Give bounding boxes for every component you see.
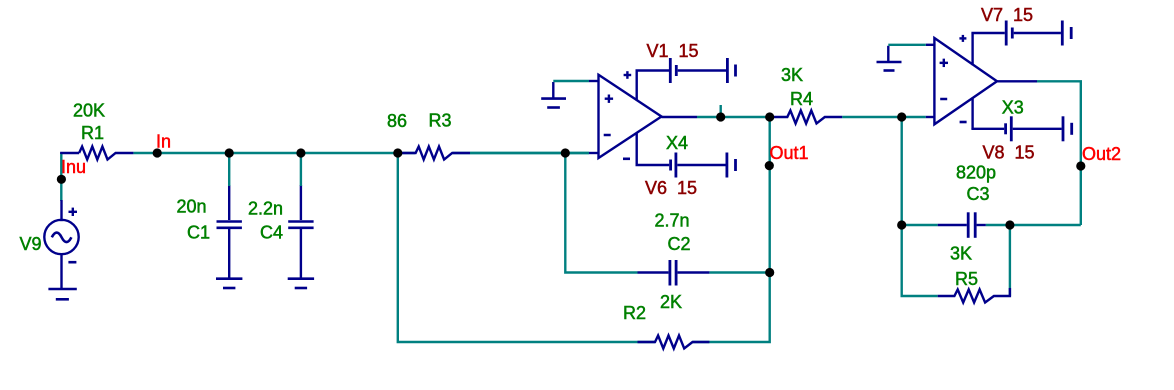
svg-text:R1: R1 — [81, 123, 104, 143]
label X4 plus supply — [624, 71, 632, 79]
svg-text:C1: C1 — [187, 222, 210, 242]
svg-text:2K: 2K — [660, 292, 682, 312]
svg-text:3K: 3K — [781, 65, 803, 85]
wire Out1 vertical — [693, 117, 770, 342]
resistor R2 — [638, 336, 710, 349]
wire R3 out to opamp — [470, 152, 589, 154]
node C3 left junction — [897, 220, 906, 229]
svg-text:X3: X3 — [1002, 97, 1024, 117]
resistor R4 — [772, 111, 842, 124]
node opamp2 inverting junction — [897, 112, 906, 121]
svg-text:X4: X4 — [666, 133, 688, 153]
ground under C1 — [216, 279, 242, 288]
label X4 plus in — [605, 95, 613, 103]
node C1 junction — [225, 148, 234, 157]
svg-text:R3: R3 — [429, 111, 452, 131]
svg-text:R4: R4 — [790, 89, 813, 109]
battery V8 — [973, 116, 1072, 141]
node Inu — [57, 175, 66, 184]
label X4 minus in — [604, 134, 611, 137]
wire C2 branch vertical — [565, 153, 637, 273]
svg-text:820p: 820p — [956, 162, 996, 182]
label X3 plus supply — [959, 35, 966, 42]
svg-text:Out1: Out1 — [770, 143, 809, 163]
wire R5 right vertical — [1009, 229, 1011, 296]
svg-text:20K: 20K — [73, 101, 105, 121]
svg-text:2.7n: 2.7n — [655, 211, 690, 231]
ground at X4 plus input — [541, 82, 566, 108]
wire R2 branch left vertical — [398, 153, 655, 342]
node opamp1 inverting junction — [561, 148, 570, 157]
svg-text:R2: R2 — [623, 303, 646, 323]
wire C1 top — [228, 153, 230, 186]
svg-text:In: In — [156, 132, 171, 152]
wire Inu vertical — [60, 153, 62, 201]
wire X3 plus input — [888, 44, 926, 46]
wire X4 plus input — [553, 80, 589, 82]
node Out1 — [765, 161, 774, 170]
wire C2 right — [709, 271, 769, 273]
svg-text:C4: C4 — [260, 222, 283, 242]
svg-text:V7 15: V7 15 — [981, 5, 1033, 25]
wire C3 right — [986, 224, 1081, 226]
svg-text:V9: V9 — [20, 234, 42, 254]
resistor R3 — [400, 147, 470, 160]
svg-text:C3: C3 — [967, 184, 990, 204]
battery V1 — [637, 58, 736, 83]
node C3 right junction — [1005, 220, 1014, 229]
node probe junction — [716, 112, 725, 121]
ground under C4 — [288, 279, 314, 288]
label X3 plus in — [940, 59, 948, 67]
label X4 minus supply — [623, 158, 630, 161]
svg-text:3K: 3K — [950, 244, 972, 264]
svg-text:86: 86 — [387, 111, 407, 131]
svg-text:R5: R5 — [955, 269, 978, 289]
svg-text:Inu: Inu — [61, 157, 86, 177]
capacitor C3 — [938, 212, 986, 238]
svg-text:20n: 20n — [177, 197, 207, 217]
voltage source V9 — [44, 200, 78, 289]
capacitor C2 — [638, 260, 710, 286]
label V9 plus — [69, 208, 78, 216]
label X3 minus supply — [960, 121, 967, 124]
svg-text:2.2n: 2.2n — [248, 199, 283, 219]
wire main input row — [133, 152, 589, 154]
svg-text:V8 15: V8 15 — [983, 143, 1035, 163]
capacitor C4 — [288, 185, 313, 278]
svg-text:Out2: Out2 — [1082, 144, 1121, 164]
op-amp X4 — [589, 71, 697, 166]
resistor R1 — [61, 147, 133, 160]
ground at X3 plus input — [877, 46, 902, 71]
wire C4 top — [300, 153, 302, 186]
svg-text:V6 15: V6 15 — [645, 178, 697, 198]
svg-text:V1 15: V1 15 — [647, 41, 699, 61]
wire stub probe — [720, 105, 722, 117]
battery V7 — [973, 21, 1072, 46]
wire R4 to opamp2 — [842, 116, 926, 118]
label X3 minus in — [940, 98, 947, 101]
resistor R5 — [938, 288, 1010, 303]
wire opamp2 output — [1037, 81, 1081, 225]
node C2 right junction — [765, 268, 774, 277]
node R3 left junction — [393, 148, 402, 157]
node Out2 — [1076, 161, 1085, 170]
node Out1 top junction — [765, 112, 774, 121]
battery V6 — [637, 153, 736, 178]
label V9 minus — [68, 261, 76, 264]
capacitor C1 — [217, 185, 242, 278]
wire feedback left vertical — [902, 117, 938, 296]
ground under V9 — [48, 289, 76, 299]
wire C3 left — [902, 224, 938, 226]
op-amp X3 — [926, 33, 1037, 129]
node In — [153, 148, 162, 157]
svg-text:C2: C2 — [668, 234, 691, 254]
node C4 junction — [296, 148, 305, 157]
wire opamp1 output — [697, 116, 772, 118]
